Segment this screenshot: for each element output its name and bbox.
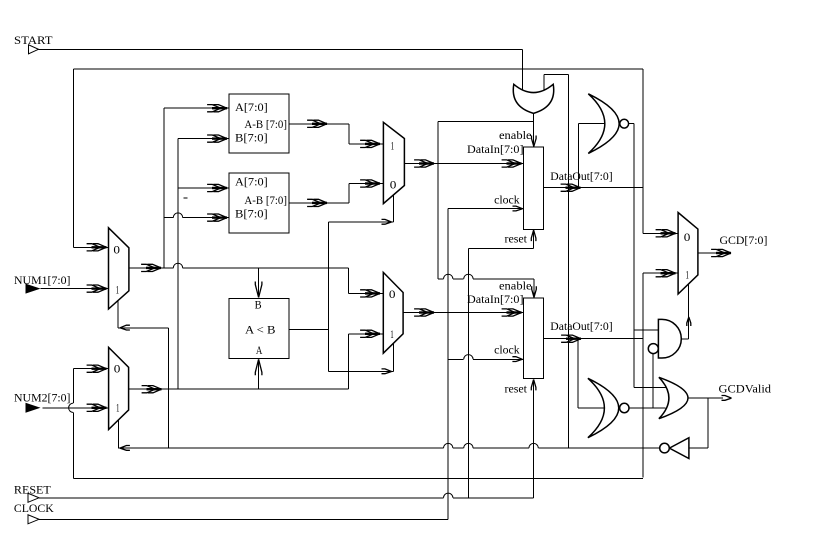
svg-text:B[7:0]: B[7:0] bbox=[235, 132, 268, 144]
svg-text:A < B: A < B bbox=[245, 324, 276, 336]
svg-text:RESET: RESET bbox=[14, 484, 51, 496]
svg-text:CLOCK: CLOCK bbox=[14, 503, 55, 515]
svg-text:GCDValid: GCDValid bbox=[719, 384, 772, 396]
svg-text:A-B [7:0]: A-B [7:0] bbox=[244, 195, 287, 207]
svg-text:0: 0 bbox=[389, 287, 396, 301]
svg-text:enable: enable bbox=[499, 130, 532, 142]
svg-text:A[7:0]: A[7:0] bbox=[235, 102, 268, 114]
svg-text:0: 0 bbox=[390, 177, 397, 191]
svg-text:reset: reset bbox=[505, 383, 528, 395]
svg-text:START: START bbox=[14, 35, 53, 47]
svg-text:A[7:0]: A[7:0] bbox=[235, 177, 268, 189]
svg-text:DataIn[7:0]: DataIn[7:0] bbox=[467, 294, 524, 306]
svg-text:1: 1 bbox=[686, 267, 690, 281]
svg-text:DataIn[7:0]: DataIn[7:0] bbox=[467, 144, 524, 156]
svg-text:0: 0 bbox=[114, 362, 121, 376]
svg-text:1: 1 bbox=[391, 139, 395, 153]
svg-text:1: 1 bbox=[116, 401, 120, 415]
svg-text:DataOut[7:0]: DataOut[7:0] bbox=[550, 321, 612, 333]
svg-text:NUM1[7:0]: NUM1[7:0] bbox=[14, 275, 71, 287]
svg-text:A: A bbox=[256, 345, 263, 357]
svg-text:NUM2[7:0]: NUM2[7:0] bbox=[14, 392, 71, 404]
svg-text:clock: clock bbox=[494, 345, 520, 357]
svg-text:enable: enable bbox=[499, 280, 532, 292]
svg-text:clock: clock bbox=[494, 194, 520, 206]
svg-text:B: B bbox=[255, 299, 262, 311]
svg-text:A-B [7:0]: A-B [7:0] bbox=[244, 119, 287, 131]
svg-text:DataOut[7:0]: DataOut[7:0] bbox=[550, 171, 612, 183]
svg-text:GCD[7:0]: GCD[7:0] bbox=[720, 235, 768, 247]
svg-text:reset: reset bbox=[505, 233, 528, 245]
svg-text:B[7:0]: B[7:0] bbox=[235, 208, 268, 220]
svg-text:1: 1 bbox=[116, 282, 120, 296]
svg-text:1: 1 bbox=[390, 327, 394, 341]
svg-text:0: 0 bbox=[684, 230, 691, 244]
svg-text:0: 0 bbox=[113, 242, 120, 256]
